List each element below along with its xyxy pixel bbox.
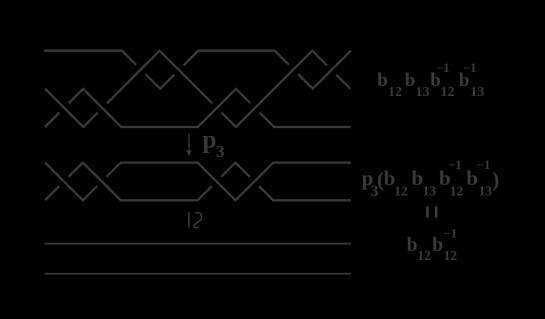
svg-text:12: 12	[450, 184, 464, 199]
svg-text:−1: −1	[463, 61, 476, 75]
svg-text:3: 3	[216, 142, 225, 161]
svg-text:12: 12	[394, 184, 408, 199]
svg-text:b: b	[407, 235, 418, 256]
svg-text:−1: −1	[436, 61, 449, 75]
svg-text:−1: −1	[477, 158, 490, 172]
svg-text:−1: −1	[448, 158, 461, 172]
svg-text:b: b	[405, 70, 416, 91]
svg-text:12: 12	[388, 85, 402, 100]
svg-text:): )	[492, 168, 499, 192]
svg-text:13: 13	[470, 85, 484, 100]
svg-text:13: 13	[423, 184, 437, 199]
svg-text:12: 12	[441, 85, 455, 100]
svg-text:12: 12	[444, 248, 458, 263]
svg-text:b: b	[432, 235, 443, 256]
svg-text:13: 13	[479, 184, 493, 199]
svg-text:p: p	[203, 127, 217, 154]
svg-text:b: b	[377, 70, 388, 91]
svg-text:13: 13	[416, 85, 430, 100]
svg-text:3: 3	[371, 183, 379, 200]
svg-text:−1: −1	[444, 227, 457, 241]
svg-text:b: b	[412, 166, 424, 190]
svg-text:12: 12	[417, 248, 431, 263]
